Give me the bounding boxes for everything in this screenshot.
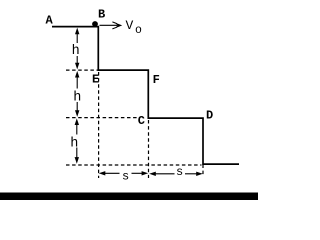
svg-text:h: h xyxy=(70,136,78,151)
dashed level line at C xyxy=(66,117,138,119)
svg-text:h: h xyxy=(72,44,80,59)
dimension h1 (top line to E level) xyxy=(76,33,78,65)
svg-text:C: C xyxy=(138,114,145,128)
svg-text:h: h xyxy=(73,91,81,106)
svg-text:V: V xyxy=(126,18,134,33)
dashed vertical below C xyxy=(148,120,150,178)
svg-text:A: A xyxy=(46,13,54,27)
svg-text:B: B xyxy=(98,7,105,21)
dashed vertical below E xyxy=(98,72,100,178)
svg-text:o: o xyxy=(135,24,142,37)
dashed level line at E xyxy=(66,69,98,71)
dashed level line at floor xyxy=(66,164,202,166)
velocity arrow V0 xyxy=(100,24,118,26)
svg-text:s: s xyxy=(122,169,129,183)
ball at B xyxy=(92,21,98,27)
svg-text:F: F xyxy=(153,73,160,87)
staircase outline (top platform, steps, floor) xyxy=(52,27,239,165)
svg-text:s: s xyxy=(176,165,183,179)
svg-text:D: D xyxy=(206,108,213,122)
dimension s2 (below second step) xyxy=(154,173,199,175)
dimension h2 (E level to C level) xyxy=(76,76,78,112)
dimension h3 (C level to floor level) xyxy=(76,124,78,159)
tick below D xyxy=(202,165,204,177)
bottom black bar xyxy=(0,193,258,201)
dimension s1 (below first step) xyxy=(103,172,144,174)
